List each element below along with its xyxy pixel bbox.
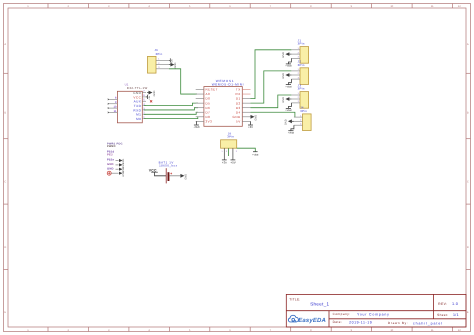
svg-text:+5V: +5V bbox=[230, 161, 235, 165]
WEMOS right pin GND bbox=[242, 116, 250, 118]
svg-text:Company:: Company: bbox=[333, 312, 351, 316]
svg-text:J6: J6 bbox=[155, 49, 159, 52]
svg-text:6: 6 bbox=[143, 94, 145, 97]
ground flag on J3 pin2 bbox=[289, 98, 291, 100]
svg-text:C: C bbox=[467, 180, 469, 183]
svg-text:J1: J1 bbox=[298, 39, 302, 42]
WEMOS right pin D2 bbox=[242, 102, 250, 104]
svg-text:D5: D5 bbox=[206, 102, 211, 106]
power flag +5V on J8 pin3 bbox=[232, 148, 234, 160]
frame reference letters bbox=[4, 43, 469, 314]
module U1 body bbox=[117, 91, 142, 123]
svg-text:TX: TX bbox=[236, 88, 241, 92]
svg-text:11: 11 bbox=[114, 110, 117, 113]
svg-text:1: 1 bbox=[298, 92, 299, 95]
connector J8 pin 2 wire stub bbox=[228, 148, 230, 156]
connector J3 pin 1 bbox=[291, 94, 300, 96]
svg-text:D4: D4 bbox=[236, 111, 241, 115]
svg-text:RXD: RXD bbox=[133, 109, 141, 113]
svg-text:7: 7 bbox=[143, 90, 145, 93]
svg-text:3: 3 bbox=[300, 122, 301, 125]
svg-text:D7: D7 bbox=[206, 111, 211, 115]
svg-text:E: E bbox=[467, 311, 469, 314]
WEMOS right pin D3 bbox=[242, 107, 250, 109]
ground flag on J6 pin2 bbox=[169, 64, 171, 66]
svg-text:1: 1 bbox=[298, 47, 299, 50]
battery BAT1 symbol bbox=[165, 168, 167, 183]
svg-text:5V: 5V bbox=[236, 120, 241, 124]
svg-text:1: 1 bbox=[300, 114, 301, 117]
svg-text:D: D bbox=[4, 246, 6, 249]
svg-text:Your Company: Your Company bbox=[357, 312, 390, 316]
svg-text:M0: M0 bbox=[136, 117, 141, 121]
ground flag on J2 pin2 bbox=[289, 74, 291, 76]
WEMOS left pin 3V3 bbox=[196, 120, 204, 122]
svg-text:A: A bbox=[4, 43, 6, 46]
svg-text:EasyEDA: EasyEDA bbox=[298, 317, 326, 324]
svg-text:E: E bbox=[4, 311, 6, 314]
svg-text:GND: GND bbox=[174, 63, 177, 69]
connector J3 body bbox=[300, 92, 309, 109]
svg-text:GND: GND bbox=[282, 97, 285, 103]
svg-text:1: 1 bbox=[298, 68, 299, 71]
connector J1 body bbox=[300, 47, 309, 64]
svg-text:3: 3 bbox=[298, 100, 299, 103]
connector J8 body bbox=[221, 140, 237, 148]
svg-text:J3: J3 bbox=[298, 84, 302, 87]
no-connect mark on U1 AUX pin bbox=[150, 100, 152, 102]
svg-text:GND: GND bbox=[233, 115, 241, 119]
svg-text:D: D bbox=[467, 246, 469, 249]
svg-text:+vbat: +vbat bbox=[285, 85, 291, 88]
power flag +3v on J6 pin1 bbox=[169, 59, 170, 61]
WEMOS left pin D0 bbox=[196, 98, 204, 100]
svg-text:3Pin: 3Pin bbox=[156, 53, 163, 56]
connector J3 pin 2 bbox=[291, 98, 300, 100]
connector J1 pin 3 bbox=[291, 57, 300, 59]
power flag +3V on WEMOS 5V pin bbox=[250, 121, 252, 124]
U1 left pin 8 bbox=[108, 98, 117, 100]
wire WEMOS D1 to J1 bbox=[251, 50, 292, 99]
svg-text:GND: GND bbox=[107, 163, 114, 166]
U1 right pin M0 bbox=[142, 118, 146, 120]
wire J6 pin3 to WEMOS A0 bbox=[169, 69, 197, 94]
svg-text:10: 10 bbox=[114, 105, 117, 108]
wire J8 to +vbat bbox=[237, 148, 256, 151]
svg-text:WEMOS1: WEMOS1 bbox=[216, 79, 235, 83]
svg-text:D0: D0 bbox=[206, 97, 211, 101]
power flag +3v on J8 pin1 bbox=[223, 148, 225, 160]
ground flag on U1 GND pin bbox=[147, 92, 149, 94]
U1 left pin 9 bbox=[108, 103, 117, 105]
svg-text:VCC: VCC bbox=[133, 96, 141, 100]
svg-text:U1: U1 bbox=[125, 83, 129, 86]
svg-text:3Pin: 3Pin bbox=[300, 109, 307, 112]
svg-text:GND: GND bbox=[282, 52, 285, 58]
svg-text:3: 3 bbox=[158, 66, 159, 69]
connector J6 pin 1 bbox=[156, 59, 169, 61]
svg-text:C: C bbox=[4, 180, 6, 183]
svg-text:TXD: TXD bbox=[134, 104, 142, 108]
svg-text:D2: D2 bbox=[236, 102, 241, 106]
U1 right pin GND bbox=[142, 92, 146, 94]
svg-text:+vbat: +vbat bbox=[252, 153, 258, 156]
ground flag on WEMOS GND pin bbox=[251, 115, 255, 119]
svg-text:5: 5 bbox=[143, 99, 145, 102]
svg-text:AUX: AUX bbox=[134, 100, 142, 104]
svg-text:E32-TTL-1W: E32-TTL-1W bbox=[127, 86, 148, 89]
wire WEMOS D4 to J4 bbox=[251, 112, 295, 117]
wire WEMOS D2 to J2 bbox=[251, 71, 292, 103]
svg-text:GND: GND bbox=[255, 115, 258, 121]
svg-text:2: 2 bbox=[300, 119, 301, 122]
svg-text:A: A bbox=[467, 43, 469, 46]
svg-text:8: 8 bbox=[115, 97, 117, 100]
svg-text:+3v: +3v bbox=[171, 59, 174, 63]
svg-text:+3v: +3v bbox=[148, 96, 151, 100]
connector J4 pin 3 bbox=[294, 124, 303, 126]
svg-text:1/1: 1/1 bbox=[453, 313, 459, 317]
U1 right pin TXD bbox=[142, 105, 146, 107]
svg-text:9: 9 bbox=[115, 101, 117, 104]
connector J2 pin 1 bbox=[291, 70, 300, 72]
svg-text:2019-11-19: 2019-11-19 bbox=[349, 320, 372, 324]
svg-text:P$2n: P$2n bbox=[107, 158, 114, 161]
connector J4 body bbox=[303, 114, 312, 131]
title block outline bbox=[286, 294, 466, 327]
wire U1 RXD to WEMOS D6 bbox=[144, 108, 198, 110]
svg-text:PWRC: PWRC bbox=[107, 145, 116, 148]
frame row ticks left/right bbox=[4, 73, 471, 269]
svg-text:A0: A0 bbox=[206, 92, 211, 96]
svg-text:+vbat: +vbat bbox=[285, 65, 291, 68]
net flag +vbat on J3 pin3 bbox=[288, 103, 291, 108]
svg-text:VCC: VCC bbox=[149, 168, 157, 172]
svg-text:2: 2 bbox=[298, 51, 299, 54]
svg-text:2: 2 bbox=[298, 96, 299, 99]
WEMOS right pin 5V bbox=[242, 120, 250, 122]
power part positive terminal bbox=[107, 171, 111, 175]
net flag +vbat on J2 pin3 bbox=[288, 79, 291, 84]
svg-text:2: 2 bbox=[158, 62, 159, 65]
svg-text:18650_box: 18650_box bbox=[159, 164, 177, 167]
net flag +vbat on J4 pin3 bbox=[291, 125, 294, 130]
WEMOS left pin D7 bbox=[196, 111, 204, 113]
WEMOS right pin RX bbox=[242, 93, 250, 95]
svg-text:TITLE:: TITLE: bbox=[289, 297, 300, 301]
svg-text:D8: D8 bbox=[206, 115, 211, 119]
svg-text:1: 1 bbox=[158, 58, 159, 61]
svg-text:GND: GND bbox=[282, 73, 285, 79]
svg-text:J2: J2 bbox=[298, 60, 302, 63]
svg-text:M1: M1 bbox=[136, 113, 141, 117]
svg-text:GND: GND bbox=[184, 174, 187, 180]
connector J3 pin 3 bbox=[291, 102, 300, 104]
U1 left pin 10 bbox=[108, 107, 117, 109]
WEMOS right pin D4 bbox=[242, 111, 250, 113]
WEMOS left pin A0 bbox=[196, 93, 204, 95]
IC WEMOS1 body bbox=[204, 87, 242, 127]
connector J6 body bbox=[148, 56, 157, 73]
svg-text:J4: J4 bbox=[300, 106, 304, 109]
svg-text:3Pin: 3Pin bbox=[298, 63, 305, 66]
WEMOS left pin RESET bbox=[196, 89, 204, 91]
svg-text:3: 3 bbox=[236, 150, 237, 152]
U1 right pin M1 bbox=[142, 113, 146, 115]
connector J4 pin 1 bbox=[294, 116, 303, 118]
wire battery to ground bbox=[169, 175, 180, 177]
WEMOS left pin D6 bbox=[196, 107, 204, 109]
svg-text:GND: GND bbox=[122, 171, 125, 176]
svg-text:GND: GND bbox=[133, 91, 141, 95]
connector J6 pin 2 bbox=[156, 64, 169, 66]
svg-text:D1: D1 bbox=[236, 97, 241, 101]
svg-text:+3V: +3V bbox=[248, 126, 253, 129]
net flag +vbat on J1 pin3 bbox=[288, 58, 291, 63]
svg-text:Date:: Date: bbox=[333, 320, 343, 324]
connector J4 pin 2 bbox=[294, 120, 303, 122]
svg-text:3Pin: 3Pin bbox=[298, 87, 305, 90]
ground flag on J4 pin2 bbox=[292, 120, 294, 122]
ground flag on J1 pin2 bbox=[289, 53, 291, 55]
svg-text:REV:: REV: bbox=[438, 302, 447, 306]
svg-text:J8: J8 bbox=[228, 132, 231, 135]
svg-text:PE2: PE2 bbox=[107, 153, 113, 156]
svg-text:B: B bbox=[467, 112, 469, 115]
svg-text:RX: RX bbox=[236, 92, 241, 96]
ground flag at battery bbox=[180, 174, 184, 178]
svg-text:2: 2 bbox=[226, 150, 227, 152]
svg-text:Drawn By:: Drawn By: bbox=[388, 321, 409, 325]
connector J2 pin 2 bbox=[291, 74, 300, 76]
svg-text:3: 3 bbox=[298, 76, 299, 79]
svg-text:3: 3 bbox=[298, 56, 299, 59]
wire WEMOS D3 to J3 bbox=[251, 95, 292, 108]
svg-text:GND: GND bbox=[107, 167, 114, 170]
svg-text:GND: GND bbox=[285, 119, 288, 125]
svg-text:Sheet_1: Sheet_1 bbox=[310, 302, 329, 307]
connector J6 pin 3 bbox=[156, 68, 169, 70]
svg-text:RESET: RESET bbox=[206, 88, 219, 92]
WEMOS left pin D5 bbox=[196, 102, 204, 104]
svg-text:+3v: +3v bbox=[222, 161, 227, 165]
WEMOS right pin D1 bbox=[242, 98, 250, 100]
svg-text:+3v3: +3v3 bbox=[193, 126, 199, 129]
svg-text:2: 2 bbox=[298, 72, 299, 75]
wire U1 M0 to WEMOS D8 bbox=[144, 117, 198, 119]
connector J2 pin 3 bbox=[291, 78, 300, 80]
svg-text:+vbat: +vbat bbox=[288, 132, 294, 135]
wire U1 TXD to WEMOS D5 bbox=[144, 103, 198, 105]
svg-text:D3: D3 bbox=[236, 106, 241, 110]
svg-text:WEMOS-D1-MINI: WEMOS-D1-MINI bbox=[212, 83, 244, 87]
power flag on U1 VCC pin bbox=[146, 96, 148, 98]
svg-text:3Pin: 3Pin bbox=[227, 135, 234, 138]
svg-text:3Pin: 3Pin bbox=[298, 42, 305, 45]
svg-text:P$1d: P$1d bbox=[107, 150, 114, 153]
connector J2 body bbox=[300, 68, 309, 85]
svg-text:Sheet:: Sheet: bbox=[437, 313, 448, 317]
connector J1 pin 2 bbox=[291, 53, 300, 55]
U1 right pin AUX bbox=[142, 100, 146, 102]
net flag +vbat at J8 bbox=[253, 151, 258, 153]
WEMOS right pin TX bbox=[242, 89, 250, 91]
U1 right pin VCC bbox=[142, 96, 146, 98]
power flag +3v3 on WEMOS 3V3 pin bbox=[195, 121, 197, 124]
WEMOS left pin D8 bbox=[196, 116, 204, 118]
svg-text:BAT1 1V: BAT1 1V bbox=[159, 161, 174, 164]
wire U1 M1 to WEMOS D7 bbox=[144, 112, 198, 114]
svg-text:B: B bbox=[4, 112, 6, 115]
svg-text:chahil_patel: chahil_patel bbox=[413, 321, 443, 325]
svg-text:+vbat: +vbat bbox=[285, 109, 291, 112]
U1 right pin RXD bbox=[142, 109, 146, 111]
svg-text:3V3: 3V3 bbox=[206, 120, 213, 124]
U1 left pin 11 bbox=[108, 111, 117, 113]
svg-text:1: 1 bbox=[222, 150, 223, 152]
svg-text:D6: D6 bbox=[206, 106, 211, 110]
connector J1 pin 1 bbox=[291, 49, 300, 51]
svg-text:GND: GND bbox=[153, 91, 156, 97]
EasyEDA logo bbox=[288, 315, 298, 322]
svg-text:1.0: 1.0 bbox=[452, 302, 458, 306]
